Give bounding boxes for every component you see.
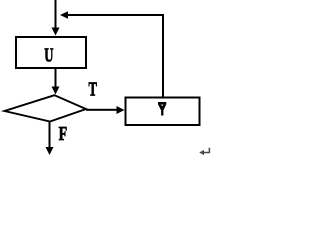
arrowhead into decision diamond xyxy=(52,87,60,95)
arrowhead into box V xyxy=(117,106,125,114)
process box U xyxy=(16,37,86,68)
wire: top entry vertical line xyxy=(55,0,57,29)
svg-text:F: F xyxy=(59,123,68,145)
decision diamond xyxy=(5,95,87,121)
wire: loop-back horizontal line xyxy=(66,14,163,16)
wire: true branch to box V xyxy=(86,109,117,111)
label in box V (forall-like glyph) xyxy=(158,102,166,116)
svg-text:U: U xyxy=(44,45,53,67)
process box V xyxy=(126,98,200,126)
wire: false branch downward xyxy=(49,122,51,148)
arrowhead into process box U xyxy=(52,28,60,36)
carriage-return formatting mark xyxy=(202,148,209,153)
arrowhead false branch xyxy=(46,147,54,155)
wire: U box to diamond xyxy=(55,69,57,87)
arrowhead of loop-back pointing left xyxy=(60,11,68,18)
svg-text:T: T xyxy=(89,79,98,101)
wire: loop-back vertical line from box V xyxy=(162,14,164,98)
